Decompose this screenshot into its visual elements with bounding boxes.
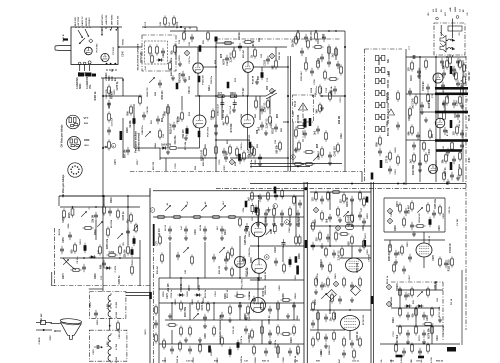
junction j54 (102, 95, 104, 97)
svg-text:f: f (274, 204, 275, 208)
resistor R155 (331, 292, 334, 303)
if vwire 2 (181, 96, 183, 110)
tuner bottom pin pin12 (114, 63, 116, 65)
test point diamond TP4 (229, 159, 234, 164)
resistor R111 (338, 233, 349, 236)
svg-text:C.RED: C.RED (39, 337, 41, 344)
capacitor C4 (238, 43, 242, 51)
resistor R73 (82, 227, 93, 230)
resistor R176 (411, 342, 414, 353)
resistor R31 (173, 15, 176, 26)
svg-text:10n: 10n (271, 229, 273, 234)
rail y217 (153, 216, 250, 218)
rm vwire 2 (389, 240, 391, 248)
junction j33 (435, 111, 437, 113)
svg-text:R440 10k: R440 10k (386, 92, 389, 103)
resistor R189 (409, 106, 412, 117)
capacitor C24 (336, 61, 340, 69)
capacitor C6 (266, 56, 270, 64)
connector row contact K4 (376, 90, 385, 95)
resistor R160 (343, 336, 346, 347)
svg-text:R430: R430 (378, 59, 381, 65)
capacitor C61 (282, 239, 286, 247)
junction j4 (247, 95, 249, 97)
bb rail y320 (165, 319, 300, 321)
switch contact S7 (201, 205, 207, 211)
line deflection coil L5 (108, 293, 111, 309)
resistor R148 (199, 342, 202, 353)
brm rail y290 (396, 289, 443, 291)
resistor R191 (425, 152, 428, 163)
svg-text:R511 2k: R511 2k (205, 289, 207, 298)
ladder stub st1 (257, 217, 259, 222)
svg-text:C106: C106 (314, 79, 316, 85)
tube PCF80 b electrodes (244, 115, 251, 128)
junction j50 (83, 257, 85, 259)
capacitor C103 (406, 312, 410, 320)
top rail corner drop (196, 27, 198, 31)
ground g49 (350, 297, 354, 302)
svg-text:R72 82k: R72 82k (231, 123, 233, 132)
capacitor C97 (324, 314, 328, 322)
resistor R13 (167, 104, 170, 115)
capacitor C121 (412, 142, 416, 150)
ground g17 (256, 221, 260, 226)
capacitor C37 (443, 127, 447, 135)
svg-text:C65 1k: C65 1k (449, 206, 451, 214)
svg-text:C270: C270 (115, 159, 117, 165)
svg-text:C712: C712 (393, 331, 395, 337)
brm rail y308 (391, 307, 440, 309)
connector row contact K7 (376, 126, 385, 131)
resistor R82 (210, 216, 221, 219)
tb lead 2 (84, 72, 86, 76)
divider x307 (306, 182, 308, 363)
svg-text:C105: C105 (175, 163, 177, 169)
bb vwire b (277, 344, 279, 358)
svg-text:N405: N405 (454, 6, 457, 12)
svg-text:C104: C104 (455, 100, 458, 106)
bar-t8 wire (437, 95, 439, 118)
svg-text:R380 1k: R380 1k (95, 91, 97, 100)
junction j57 (122, 79, 124, 81)
resistor R86 (239, 216, 242, 227)
resistor R153 (343, 276, 346, 287)
resistor R87 (257, 206, 260, 217)
switch contact S11 (417, 207, 423, 213)
right mid box bottom (384, 231, 445, 233)
left fill vwire (133, 104, 135, 148)
tuner bottom lead tl6 (79, 65, 81, 71)
ground g8 (417, 73, 421, 78)
svg-text:SFD 137: SFD 137 (469, 71, 471, 81)
resistor R76 (119, 244, 122, 255)
junction j16 (329, 225, 331, 227)
svg-text:N350: N350 (395, 147, 397, 153)
tube PCC88 electrodes (103, 53, 108, 61)
svg-text:A3 4k: A3 4k (199, 224, 202, 231)
resistor R1 (149, 44, 152, 55)
top rail junction (180, 26, 182, 28)
capacitor C95 (350, 282, 354, 290)
tube PCL805 envelope (251, 298, 266, 313)
bb rail y303 (159, 302, 304, 304)
capacitor C32 (420, 102, 424, 110)
mc rail y246 (250, 245, 304, 247)
switch contact S1 (313, 155, 319, 161)
resistor R11 (215, 95, 226, 98)
resistor R20 (251, 144, 254, 155)
bus junction bj3 (403, 183, 405, 185)
capacitor C19 (126, 147, 130, 155)
capacitor C62 (298, 200, 302, 208)
junction j40 (239, 302, 241, 304)
tube PCL86 envelope (235, 257, 246, 268)
svg-text:R620: R620 (367, 213, 369, 219)
svg-text:C185 1u: C185 1u (269, 315, 271, 324)
svg-text:CH Vista por debajo: CH Vista por debajo (61, 124, 64, 147)
svg-text:C718 1u: C718 1u (443, 325, 445, 334)
svg-text:R77 4k7: R77 4k7 (242, 87, 245, 96)
resistor R210 (305, 60, 308, 71)
svg-text:2.2uF 0.1: 2.2uF 0.1 (264, 102, 266, 113)
svg-text:15k: 15k (381, 360, 383, 363)
mr rail y258 (340, 257, 371, 259)
ground g19 (272, 221, 276, 226)
resistor R40 (329, 90, 332, 101)
electrolytic C63 (289, 257, 292, 267)
svg-text:C548: C548 (282, 357, 285, 363)
resistor R145 (297, 344, 300, 355)
left edge stub (51, 272, 53, 286)
tube PCC88 a electrodes (195, 63, 201, 73)
tube PC97 envelope (85, 47, 93, 55)
junction j51 (119, 257, 121, 259)
if rail y140 (216, 139, 250, 141)
ground g40 (320, 105, 324, 110)
tuner tick tk3 (111, 27, 113, 29)
resistor R181 (255, 98, 258, 109)
tuner pin wire 2 (85, 29, 88, 36)
capacitor C85 (252, 296, 256, 304)
resistor R167 (427, 286, 430, 297)
tube PCL86 electrodes (237, 257, 243, 268)
yoke box 1 (89, 292, 126, 319)
capacitor C21 (300, 48, 304, 56)
dark coil right 1 (450, 66, 453, 74)
svg-text:R420: R420 (444, 105, 447, 111)
junction j1 (221, 95, 223, 97)
resistor R23 (108, 84, 111, 95)
svg-text:R505: R505 (163, 291, 165, 297)
resistor R56 (415, 94, 418, 105)
frame deflection coil L8 (108, 347, 111, 363)
svg-text:C77: C77 (156, 241, 158, 246)
bb rail y289 (159, 288, 262, 290)
bus dash-dot y188 (216, 188, 466, 190)
tube PCC88 b envelope (243, 62, 254, 73)
svg-text:C.AGUDOS: C.AGUDOS (86, 76, 89, 89)
resistor R198 (191, 254, 194, 265)
ground g1 (183, 77, 187, 82)
dark coil below T5 (198, 131, 201, 138)
resistor R206 (363, 238, 366, 249)
tube PCF80 b envelope (241, 115, 254, 128)
capacitor C114 (258, 154, 262, 162)
vdrop1 (328, 47, 330, 59)
svg-text:C148: C148 (274, 247, 277, 253)
svg-text:2.2uF 0.1: 2.2uF 0.1 (266, 118, 268, 129)
tube rail y67 b (253, 66, 288, 68)
tuner bottom pin pin11 (110, 63, 112, 65)
capacitor C70 (326, 234, 330, 242)
capacitor C48 (184, 226, 188, 234)
resistor R116 (411, 200, 414, 211)
svg-text:R690 150: R690 150 (329, 344, 331, 354)
svg-text:R97 220: R97 220 (153, 161, 155, 170)
resistor R118 (439, 204, 442, 215)
resistor R214 (251, 328, 254, 339)
svg-text:EAT: EAT (338, 358, 341, 363)
speaker wire 2 (452, 19, 454, 39)
resistor R212 (329, 262, 332, 273)
junction j31 (287, 157, 289, 159)
junction j34 (435, 140, 437, 142)
junction j59 (344, 46, 346, 48)
bottom box top (159, 277, 262, 279)
tube PCF80 c envelope (416, 243, 432, 257)
svg-text:R507: R507 (189, 285, 191, 291)
capacitor C64 (274, 258, 278, 266)
test point diamond TP9 (333, 281, 338, 286)
svg-text:R79 1k8: R79 1k8 (223, 109, 225, 118)
svg-text:N504: N504 (198, 285, 201, 291)
svg-text:R4 1M: R4 1M (58, 229, 61, 236)
svg-text:C77 1k: C77 1k (386, 155, 388, 163)
svg-text:R215 0.47: R215 0.47 (347, 215, 350, 226)
capacitor C133 (322, 34, 326, 42)
dash vertical x303 (302, 105, 304, 142)
if vwire 1 (167, 104, 169, 148)
socket PC97 inner parts (69, 118, 78, 127)
resistor R196 (131, 264, 134, 275)
capacitor C100 (342, 350, 346, 358)
tuner bottom lead tl12 (115, 69, 117, 71)
ladder stub st4 (281, 217, 283, 222)
resistor R54 (411, 60, 414, 71)
svg-text:L902: L902 (107, 341, 109, 347)
brm vwire 3 (431, 326, 433, 344)
svg-text:PCDC 88: PCDC 88 (203, 75, 205, 85)
junction j36 (258, 245, 260, 247)
svg-text:C290 1n: C290 1n (445, 167, 447, 176)
resistor R89 (289, 206, 292, 217)
svg-text:R217: R217 (137, 159, 139, 165)
capacitor C130 (94, 310, 98, 318)
tube EH90 envelope (429, 165, 438, 174)
ground g42 (320, 243, 324, 248)
T3 cathode wire (197, 73, 199, 96)
switch contact S8 (220, 205, 226, 211)
capacitor C65 (224, 256, 228, 264)
svg-text:TS 40: TS 40 (294, 100, 297, 107)
stub left (149, 190, 151, 196)
svg-text:C265: C265 (109, 103, 111, 109)
resistor R120 (403, 216, 406, 227)
svg-text:N376: N376 (223, 58, 225, 64)
deflection coil L2 (446, 48, 455, 50)
resistor R106 (321, 210, 324, 221)
right border x345 (344, 31, 346, 172)
resistor R187 (397, 90, 400, 101)
resistor R154 (359, 276, 362, 287)
t7-bar wire (435, 83, 437, 87)
resistor R177 (427, 342, 430, 353)
svg-text:R654: R654 (294, 293, 297, 299)
rs tap 1 (406, 93, 420, 95)
capacitor C2 (181, 71, 185, 79)
capacitor C3 (225, 55, 229, 63)
ground g31 (422, 339, 426, 344)
svg-text:C685: C685 (321, 351, 323, 357)
junction j42 (329, 245, 331, 247)
capacitor C68 (328, 214, 332, 222)
connector row contact K1 (376, 55, 385, 60)
svg-text:R160: R160 (299, 253, 301, 259)
resistor R83 (130, 212, 133, 223)
control box corner stub (58, 196, 60, 206)
resistor R134 (247, 304, 250, 315)
resistor R95 (295, 234, 298, 245)
svg-text:C52 1n: C52 1n (189, 56, 191, 64)
resistor R125 (180, 300, 183, 311)
junction j12 (419, 56, 421, 58)
svg-text:R250: R250 (315, 299, 317, 305)
switch contact S4 (117, 233, 123, 239)
yoke box 2 (89, 330, 127, 361)
capacitor C126 (82, 264, 86, 272)
junction j5 (302, 163, 304, 165)
resistor R66 (445, 152, 448, 163)
svg-text:1uF: 1uF (169, 21, 171, 26)
right dash-dot border x466 (465, 56, 467, 330)
resistor R53 (389, 150, 392, 161)
junction j44 (399, 289, 401, 291)
junction j29 (287, 66, 289, 68)
ground g47 (286, 313, 290, 318)
speaker terminal - (456, 16, 459, 19)
svg-text:PCT 803: PCT 803 (97, 43, 99, 52)
speaker wire 1 (440, 25, 442, 36)
bar left tap 2 (420, 111, 435, 113)
capacitor C112 (446, 148, 450, 156)
connector row contact K6 (376, 114, 385, 119)
resistor R14 (181, 110, 184, 121)
bus junction bj4 (446, 183, 448, 185)
bmr wire 1 (329, 300, 331, 314)
svg-text:D30 OA85: D30 OA85 (390, 296, 393, 307)
svg-text:L901: L901 (107, 303, 109, 309)
speaker dot 2 (452, 48, 454, 50)
IF transformer winding bar T2 (435, 93, 468, 96)
top rail y27 (142, 26, 197, 28)
tube PY88 grids (344, 319, 356, 327)
divider dark plate 3 (371, 296, 374, 304)
svg-text:R544: R544 (254, 357, 257, 363)
tuner pin wire 3 (101, 29, 103, 35)
junction j13 (446, 56, 448, 58)
resistor R65 (456, 124, 459, 135)
capacitor C33 (416, 132, 420, 140)
switch contact S15 (97, 221, 103, 227)
resistor R33 (307, 38, 310, 49)
dark plate x305 (304, 119, 307, 128)
tube EH90 electrodes (431, 165, 436, 174)
rail y164 (250, 163, 342, 165)
connector row contact K2 (376, 67, 385, 72)
svg-text:OA81: OA81 (191, 298, 194, 304)
svg-text:R38 100: R38 100 (219, 265, 221, 274)
svg-text:R901: R901 (97, 319, 99, 325)
brm vwire 1 (399, 290, 401, 308)
ground g37 (166, 149, 170, 154)
svg-text:C80 5p: C80 5p (177, 116, 179, 124)
resistor R85 (226, 216, 237, 219)
svg-text:C660: C660 (279, 285, 281, 291)
svg-text:C625: C625 (367, 249, 369, 255)
resistor R37 (324, 69, 327, 80)
junction j20 (239, 277, 241, 279)
right rail y57 (406, 56, 466, 58)
capacitor C9 (172, 122, 176, 130)
picture tube funnel rim (60, 318, 82, 324)
resistor R81 (191, 216, 202, 219)
test point diamond TP7 (387, 208, 392, 213)
capacitor C39 (452, 156, 456, 164)
resistor R190 (429, 128, 432, 139)
resistor R78 (70, 269, 81, 272)
capacitor C40 (410, 55, 418, 59)
resistor R146 (163, 338, 166, 349)
electrolytic C75 (429, 217, 432, 227)
resistor R42 (295, 126, 306, 129)
resistor R100 (231, 266, 234, 277)
svg-text:300V: 300V (224, 165, 226, 171)
svg-text:PCF1 803: PCF1 803 (208, 126, 210, 137)
svg-text:C540 8u: C540 8u (240, 355, 243, 363)
T4 plate wire (247, 47, 249, 61)
audio top loop (448, 26, 462, 31)
svg-text:C58A 3.3uF: C58A 3.3uF (217, 103, 220, 115)
capacitor C106 (422, 330, 426, 338)
tuner bottom pin pin10 (106, 63, 108, 65)
capacitor C82 (203, 314, 207, 322)
ground g15 (203, 235, 207, 240)
electrolytic C81 (229, 347, 232, 357)
T6 wire up (247, 96, 249, 115)
capacitor C22 (320, 54, 324, 62)
svg-text:C488 25u: C488 25u (141, 125, 144, 135)
svg-text:CH Vista por debajo: CH Vista por debajo (62, 174, 65, 197)
svg-text:R300: R300 (397, 283, 399, 289)
svg-text:FL 241: FL 241 (456, 218, 459, 226)
upper border y31 (170, 30, 345, 32)
switch contact S3 (63, 259, 69, 265)
ladder stub st2 (265, 217, 267, 222)
if rail y158b (230, 157, 288, 159)
resistor R43 (295, 127, 298, 138)
gap wire 1 (305, 57, 307, 62)
